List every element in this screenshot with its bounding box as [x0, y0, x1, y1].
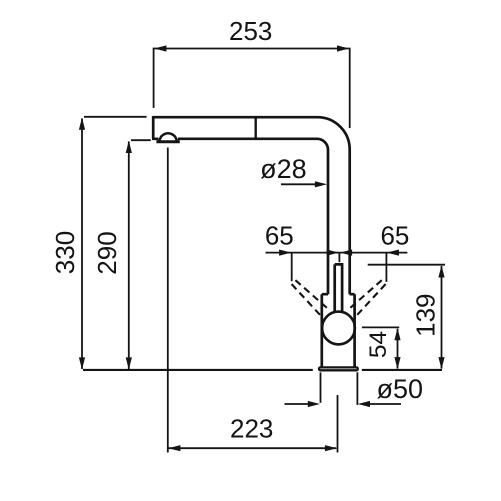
arrow 253 left: [154, 45, 166, 51]
arrow 139 bottom: [438, 357, 444, 369]
lever tilted right (dashed): [349, 280, 382, 309]
svg-text:253: 253: [229, 16, 272, 46]
arrow 54 bottom: [394, 357, 400, 369]
dim 290: line and top ref: [128, 142, 130, 370]
faucet body: [322, 294, 355, 366]
arrow dia50 right: [358, 401, 370, 407]
svg-text:223: 223: [230, 414, 273, 444]
faucet spout left end: [152, 116, 155, 139]
svg-text:290: 290: [92, 231, 122, 274]
aerator dome: [159, 133, 178, 141]
mixer ball: [322, 312, 355, 345]
svg-text:ø50: ø50: [377, 374, 424, 404]
svg-text:139: 139: [410, 294, 440, 337]
dimension texts: [50, 16, 440, 444]
arrow 330 top: [79, 118, 85, 130]
dim 253: line and extensions: [155, 48, 349, 50]
arrow 290 bottom: [126, 357, 132, 369]
dim 330: line and top ref: [81, 119, 83, 370]
arrow 65 center-left: [327, 250, 339, 256]
arrow 65 outer-left: [279, 250, 291, 256]
arrow 65 outer-right: [387, 250, 399, 256]
arrow 290 top: [126, 141, 132, 153]
arrow 330 bottom: [79, 357, 85, 369]
arrow 253 right: [337, 45, 349, 51]
lever handle (neutral): [335, 264, 342, 312]
dia50: extensions and arrow lines: [320, 372, 322, 403]
arrow 223 right: [325, 445, 337, 451]
svg-text:54: 54: [365, 331, 392, 358]
dim 54: line and top ref: [397, 329, 399, 369]
dim 223: line and extensions: [168, 447, 336, 449]
dim 139: line and top ref: [441, 266, 443, 369]
arrow 54 top: [394, 328, 400, 340]
arrowheads: [79, 45, 445, 451]
faucet spout outer profile: [153, 117, 350, 294]
arrow dia50 left: [308, 401, 320, 407]
dia28 leader arrow line: [281, 183, 315, 185]
arrow 139 top: [438, 265, 444, 277]
svg-text:ø28: ø28: [260, 154, 307, 184]
svg-text:65: 65: [265, 221, 294, 251]
base plate: [319, 367, 358, 370]
svg-text:330: 330: [50, 231, 80, 274]
lever tilted left (dashed): [295, 280, 328, 309]
faucet spout bottom edge: [152, 139, 328, 294]
countertop line: [83, 369, 442, 371]
arrow 65 center-right: [340, 250, 352, 256]
arrow 223 left: [168, 445, 180, 451]
arrow dia28: [315, 181, 327, 187]
dim 65-65: line, ticks, extensions: [266, 252, 408, 254]
spray head divider: [254, 117, 256, 139]
svg-text:65: 65: [380, 221, 409, 251]
